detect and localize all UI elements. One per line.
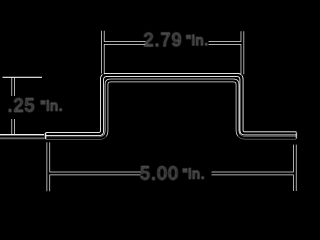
svg-text:"in.: "in. <box>41 98 64 114</box>
svg-text:.25: .25 <box>8 96 36 116</box>
svg-text:"in.: "in. <box>186 32 209 48</box>
svg-text:5.00: 5.00 <box>140 164 179 184</box>
svg-text:"in.: "in. <box>183 166 206 182</box>
svg-text:2.79: 2.79 <box>144 30 183 50</box>
